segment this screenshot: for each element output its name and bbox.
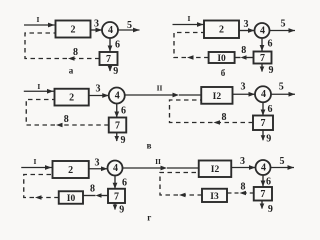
wire input 1 (g) [21, 165, 52, 170]
svg-text:4: 4 [260, 25, 265, 36]
svg-text:3: 3 [95, 158, 100, 169]
block 7 left (v) [109, 118, 127, 133]
wire 11 link (g) [123, 166, 199, 171]
block 13 (g) [202, 189, 227, 202]
svg-text:I0: I0 [67, 194, 76, 204]
block 2 (b) [204, 21, 239, 39]
block 7 (b) [254, 52, 272, 65]
block 2 (g) [53, 161, 89, 178]
block 7 right (g) [254, 187, 272, 201]
wire 3 (a) [91, 28, 103, 33]
wire 6 right (g) [261, 175, 266, 187]
wire 9 right (g) [260, 201, 265, 210]
summing circle 4 right (v) [255, 86, 271, 102]
svg-text:а: а [69, 65, 74, 75]
block 7 (a) [100, 52, 118, 65]
svg-text:2: 2 [219, 25, 224, 36]
svg-text:2: 2 [69, 93, 74, 104]
wire 9 (a) [108, 65, 113, 72]
svg-text:I3: I3 [210, 192, 219, 202]
svg-text:I2: I2 [213, 92, 222, 102]
wire input 1 (a) [24, 23, 55, 28]
summing circle 4 right (g) [256, 160, 271, 175]
svg-text:II: II [155, 157, 161, 166]
dashed feedback wire 8 (a) [25, 33, 100, 61]
svg-text:7: 7 [115, 121, 120, 132]
dashed feedback wire left (v) [26, 100, 109, 128]
svg-text:9: 9 [268, 204, 273, 215]
wire 8 from block 7 to block 10 (g) [83, 193, 108, 198]
svg-text:9: 9 [119, 205, 124, 216]
svg-text:6: 6 [268, 39, 273, 50]
dashed wire 8 from block 7 to block 13 (g) [227, 191, 254, 196]
svg-text:I: I [34, 157, 37, 166]
svg-text:7: 7 [114, 191, 119, 202]
wire output 5 (b) [270, 28, 296, 33]
svg-text:7: 7 [106, 54, 111, 65]
dashed feedback wire (b) [174, 33, 209, 60]
svg-text:4: 4 [108, 25, 113, 36]
svg-text:5: 5 [127, 20, 132, 31]
svg-text:2: 2 [71, 24, 76, 35]
block 12 (g) [199, 161, 232, 178]
svg-text:9: 9 [113, 66, 118, 77]
wire 6 (b) [260, 38, 265, 51]
svg-text:5: 5 [279, 82, 284, 93]
svg-text:3: 3 [241, 82, 246, 93]
svg-text:6: 6 [115, 40, 120, 51]
wire input 1 (b) [173, 22, 205, 27]
wire 6 right (v) [261, 102, 266, 115]
svg-text:4: 4 [261, 89, 266, 100]
svg-text:7: 7 [261, 118, 266, 129]
svg-text:2: 2 [68, 165, 73, 176]
wire output 5 (v) [271, 92, 295, 97]
wire 8 from block 7 to block 10 (b) [235, 55, 254, 60]
wire 3 left (v) [89, 93, 109, 98]
svg-text:4: 4 [113, 163, 118, 174]
svg-text:7: 7 [260, 53, 265, 64]
svg-text:6: 6 [121, 106, 126, 117]
wire 9 left (g) [113, 203, 118, 210]
block 10 (b) [209, 52, 235, 64]
svg-text:3: 3 [240, 156, 245, 167]
svg-text:9: 9 [121, 135, 126, 146]
summing circle 4 (a) [102, 22, 118, 38]
svg-text:8: 8 [90, 184, 95, 195]
svg-text:9: 9 [266, 134, 271, 145]
wire 11 link (v) [125, 93, 202, 98]
svg-text:8: 8 [241, 45, 246, 56]
svg-text:б: б [221, 68, 226, 78]
wire 6 left (g) [113, 176, 118, 189]
wire 3 right (v) [233, 92, 256, 97]
svg-text:8: 8 [73, 47, 78, 58]
wire 6 (a) [108, 38, 113, 52]
svg-text:I2: I2 [211, 165, 220, 175]
svg-text:I0: I0 [217, 54, 226, 64]
wire input 1 (v) [24, 89, 55, 94]
dashed feedback wire left (g) [24, 175, 59, 200]
block 7 left (g) [108, 189, 125, 203]
svg-text:8: 8 [222, 112, 227, 123]
svg-text:8: 8 [64, 114, 69, 125]
svg-text:I: I [188, 14, 191, 23]
summing circle 4 (b) [255, 23, 270, 38]
wire 3 left (g) [89, 166, 108, 171]
wire 9 (b) [260, 64, 265, 73]
svg-text:6: 6 [268, 104, 273, 115]
block 7 right (v) [253, 116, 273, 131]
svg-text:I: I [37, 15, 40, 24]
dashed feedback wire right (g) [160, 173, 202, 198]
svg-text:г: г [147, 213, 151, 223]
svg-text:3: 3 [94, 19, 99, 30]
svg-text:3: 3 [96, 84, 101, 95]
svg-text:в: в [147, 141, 152, 151]
wire 3 right (g) [231, 165, 255, 170]
dashed feedback wire right (v) [170, 100, 254, 125]
block 12 (v) [201, 87, 232, 104]
block 10 (g) [59, 191, 83, 204]
svg-text:3: 3 [244, 19, 249, 30]
svg-text:4: 4 [261, 162, 266, 173]
svg-text:9: 9 [269, 65, 274, 76]
wire output 5 (a) [118, 28, 140, 33]
block 2 (v) [55, 89, 89, 106]
svg-text:8: 8 [241, 182, 246, 193]
svg-text:I: I [37, 82, 40, 91]
wire 9 right (v) [261, 130, 266, 141]
wire 3 (b) [239, 28, 255, 33]
svg-text:II: II [157, 83, 163, 92]
wire output 5 (g) [271, 165, 295, 170]
summing circle 4 left (v) [109, 88, 125, 104]
wire 9 left (v) [114, 133, 119, 142]
block 2 (a) [56, 21, 91, 38]
summing circle 4 left (g) [108, 161, 123, 176]
svg-text:5: 5 [280, 156, 285, 167]
svg-text:4: 4 [115, 90, 120, 101]
svg-text:7: 7 [260, 189, 265, 200]
wire 6 left (v) [114, 104, 119, 118]
svg-text:5: 5 [281, 19, 286, 30]
svg-text:6: 6 [122, 178, 127, 189]
